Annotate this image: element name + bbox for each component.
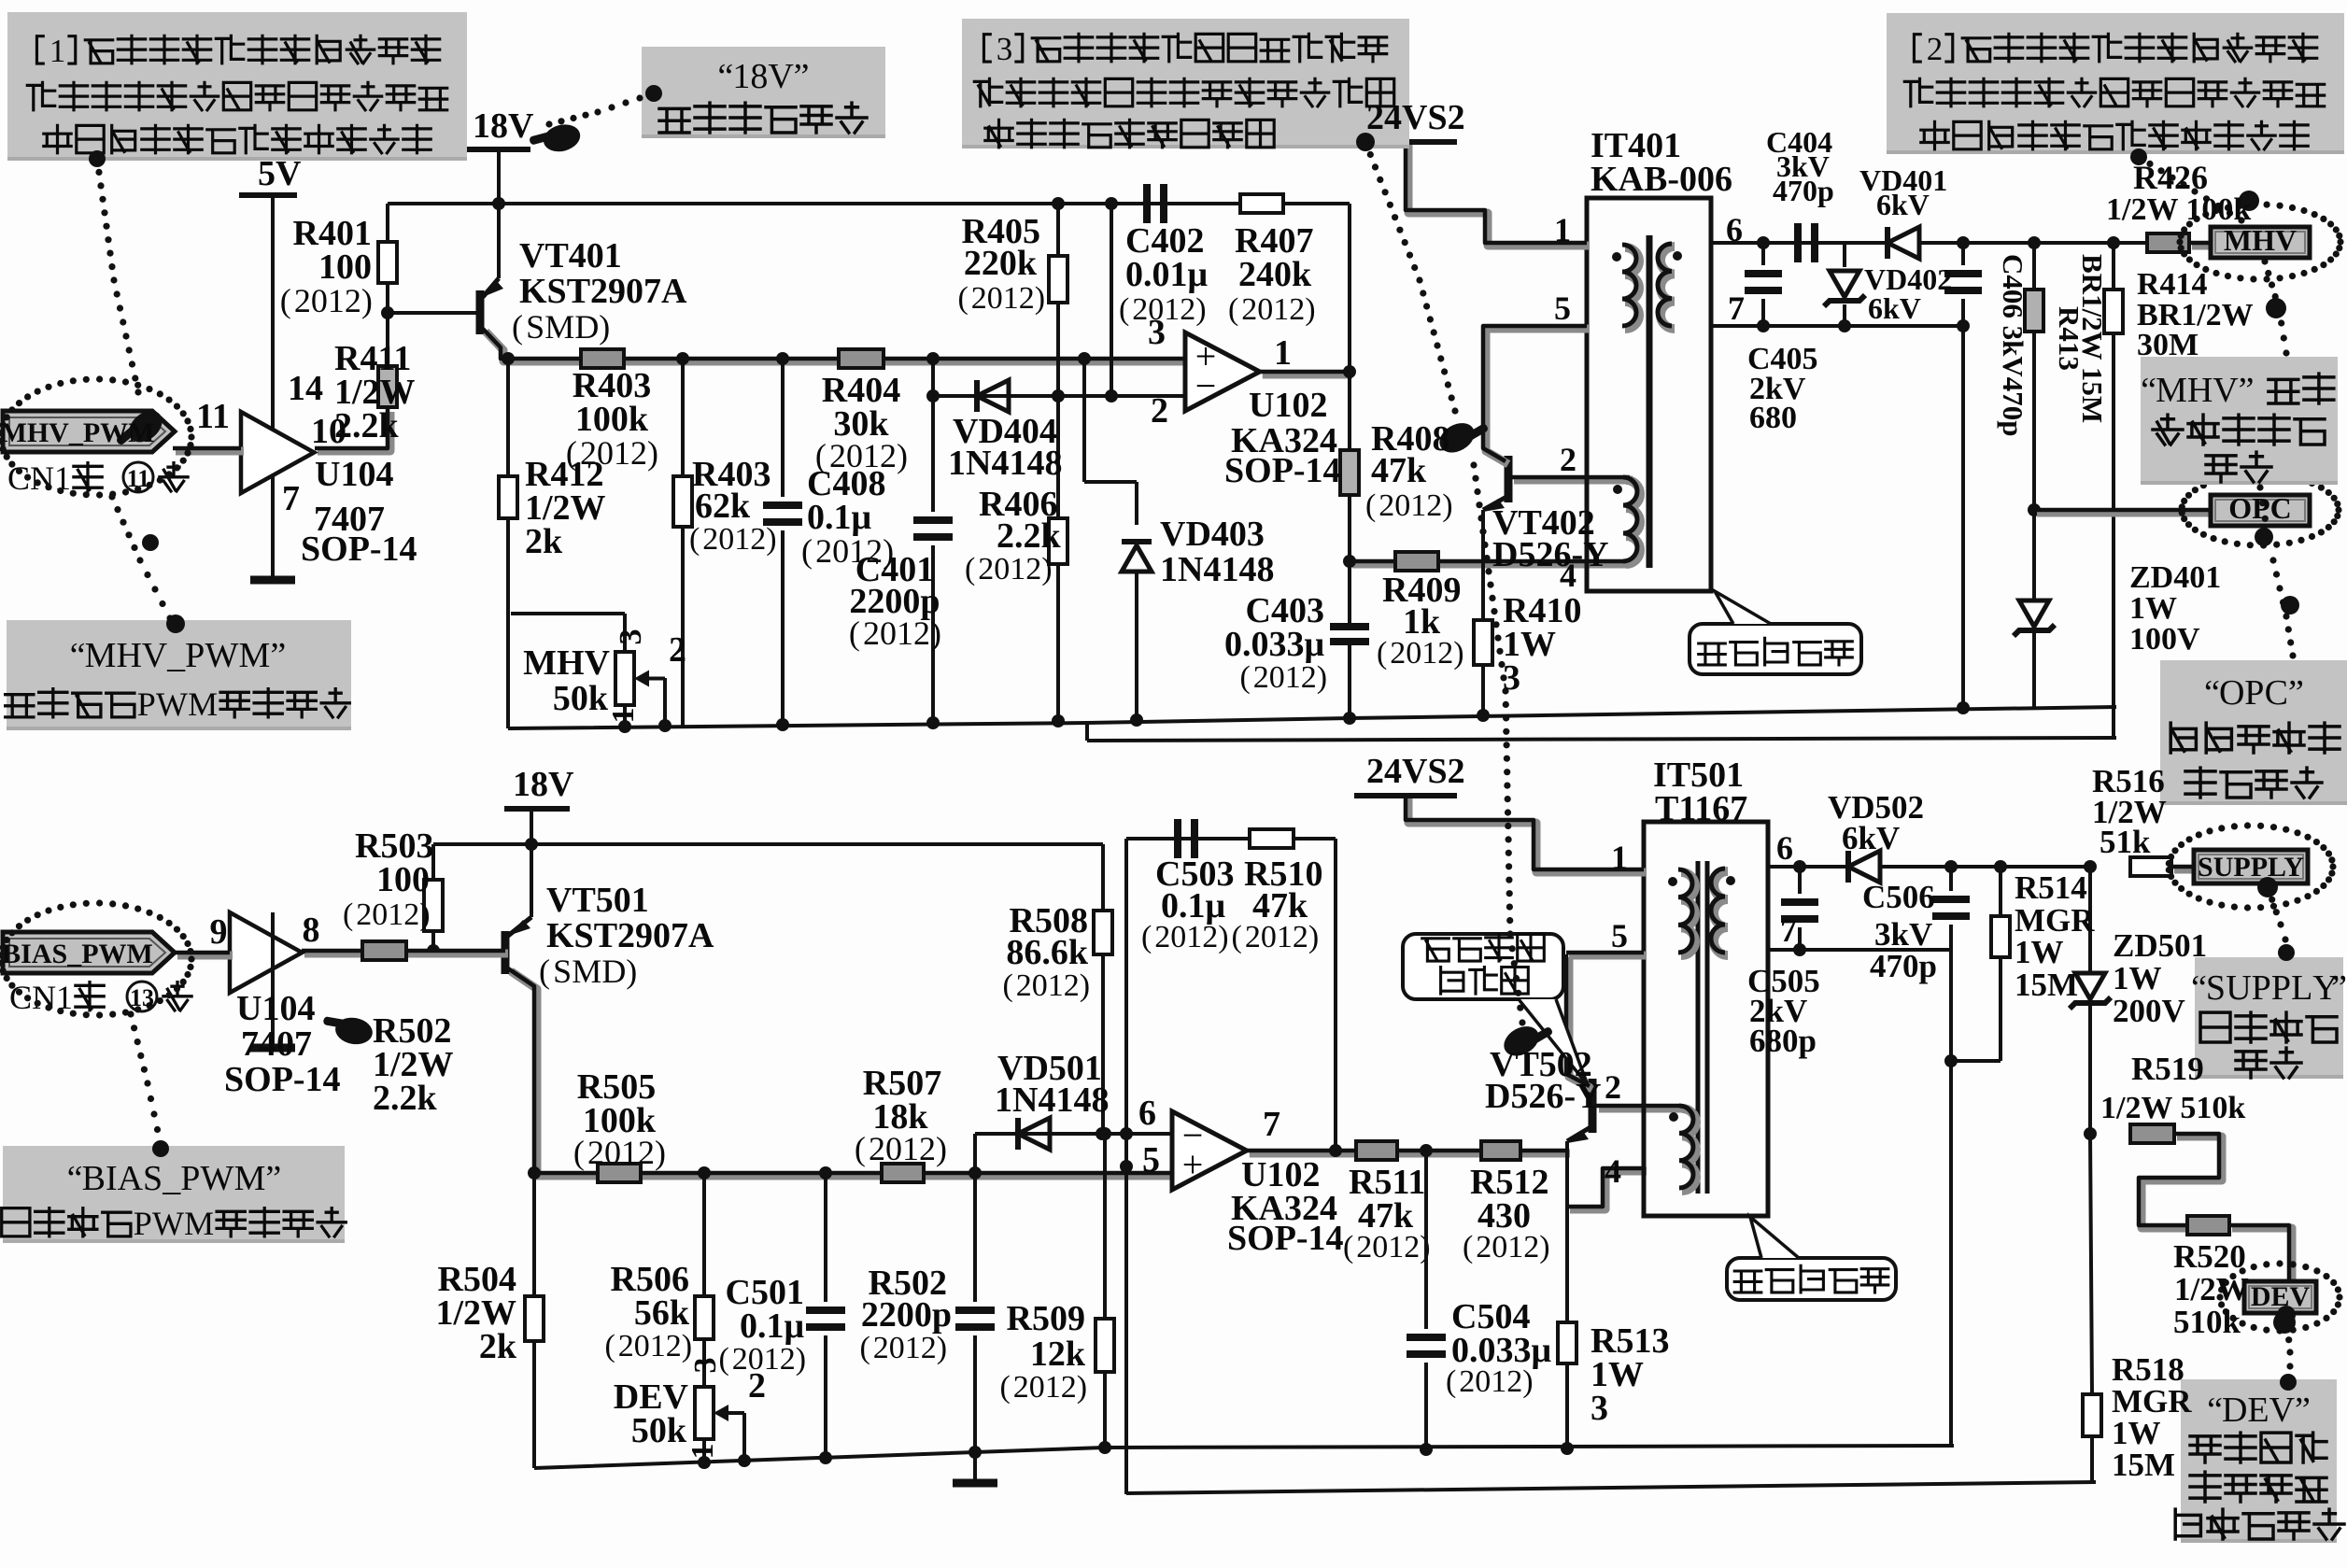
svg-text:“: “ xyxy=(2207,1391,2223,1430)
svg-text:13: 13 xyxy=(130,984,154,1011)
svg-text:): ) xyxy=(599,308,610,346)
svg-text:(: ( xyxy=(1002,968,1012,1003)
svg-text:(: ( xyxy=(855,1130,866,1167)
svg-text:1: 1 xyxy=(388,897,403,932)
svg-text:0.033μ: 0.033μ xyxy=(1224,625,1325,664)
svg-text:2: 2 xyxy=(1025,552,1041,586)
svg-text:1: 1 xyxy=(686,1444,720,1460)
svg-text:(: ( xyxy=(1141,920,1152,954)
svg-text:56k: 56k xyxy=(634,1293,690,1333)
svg-text:3: 3 xyxy=(614,629,648,645)
svg-text:): ) xyxy=(1317,660,1327,695)
svg-text:2.2k: 2.2k xyxy=(997,516,1062,556)
svg-text:2: 2 xyxy=(748,1366,766,1406)
svg-text:MHV_PWM: MHV_PWM xyxy=(1,417,155,448)
svg-text:(: ( xyxy=(965,552,975,586)
svg-text:1/2W 100k: 1/2W 100k xyxy=(2106,192,2251,227)
svg-text:8: 8 xyxy=(303,911,320,950)
svg-text:8: 8 xyxy=(750,57,768,96)
svg-text:P: P xyxy=(2244,673,2264,713)
svg-text:U104: U104 xyxy=(236,989,315,1028)
svg-text:(: ( xyxy=(1239,660,1250,695)
svg-text:P: P xyxy=(2271,968,2291,1008)
svg-text:VD403: VD403 xyxy=(1160,515,1265,554)
svg-text:18V: 18V xyxy=(473,106,534,146)
svg-text:(: ( xyxy=(1463,1230,1473,1264)
svg-text:1/2W 510k: 1/2W 510k xyxy=(2100,1091,2245,1125)
svg-text:680: 680 xyxy=(1749,401,1797,435)
svg-text:2: 2 xyxy=(1061,1370,1077,1405)
svg-text:2: 2 xyxy=(971,281,987,316)
svg-text:M: M xyxy=(239,636,271,675)
svg-text:6kV: 6kV xyxy=(1842,820,1900,856)
svg-text:(: ( xyxy=(1377,636,1387,671)
svg-text:0: 0 xyxy=(832,532,849,570)
svg-text:2: 2 xyxy=(1132,292,1148,327)
svg-text:D526-Y: D526-Y xyxy=(1492,535,1609,574)
svg-text:3: 3 xyxy=(997,31,1013,67)
svg-text:24VS2: 24VS2 xyxy=(1366,98,1465,137)
svg-text:“: “ xyxy=(2204,673,2220,713)
svg-text:A: A xyxy=(118,1159,144,1198)
svg-text:7: 7 xyxy=(282,479,300,518)
svg-text:M: M xyxy=(188,685,218,723)
svg-text:0: 0 xyxy=(1029,1370,1045,1405)
svg-text:(: ( xyxy=(604,1329,615,1363)
svg-text:V: V xyxy=(2213,371,2239,410)
svg-text:47k: 47k xyxy=(1371,451,1427,490)
svg-text:SOP-14: SOP-14 xyxy=(1227,1219,1344,1258)
svg-text:1: 1 xyxy=(1611,839,1628,876)
svg-text:P: P xyxy=(134,1205,152,1242)
svg-text:): ) xyxy=(1195,292,1206,327)
svg-text:1: 1 xyxy=(1010,552,1025,586)
svg-text:): ) xyxy=(655,1134,666,1171)
svg-text:N: N xyxy=(30,459,54,497)
svg-text:47k: 47k xyxy=(1252,886,1308,925)
svg-text:M: M xyxy=(85,636,117,675)
svg-text:18k: 18k xyxy=(872,1097,928,1137)
svg-text:11: 11 xyxy=(196,397,230,436)
svg-text:2: 2 xyxy=(702,522,718,557)
svg-text:V: V xyxy=(768,57,794,96)
svg-text:N: N xyxy=(32,979,56,1016)
svg-text:P: P xyxy=(180,1159,200,1198)
svg-text:): ) xyxy=(1308,920,1319,954)
svg-text:(: ( xyxy=(539,953,550,990)
svg-text:1: 1 xyxy=(1045,1370,1061,1405)
svg-text:M: M xyxy=(572,953,601,990)
svg-text:(: ( xyxy=(1343,1230,1353,1264)
svg-text:I: I xyxy=(106,1159,118,1198)
svg-text:1: 1 xyxy=(49,33,66,69)
svg-text:): ) xyxy=(1077,1370,1087,1405)
svg-text:2: 2 xyxy=(403,897,419,932)
svg-text:2200p: 2200p xyxy=(849,582,940,621)
svg-text:51k: 51k xyxy=(2100,824,2151,860)
svg-text:0.1μ: 0.1μ xyxy=(1161,886,1226,925)
svg-text:200V: 200V xyxy=(2113,993,2185,1029)
svg-text:): ) xyxy=(647,434,658,472)
svg-text:”: ” xyxy=(2295,1391,2311,1430)
svg-text:1W: 1W xyxy=(2129,591,2177,626)
svg-text:): ) xyxy=(796,1342,806,1377)
svg-text:M: M xyxy=(234,1159,266,1198)
svg-text:): ) xyxy=(1041,552,1052,586)
svg-text:“: “ xyxy=(67,1159,83,1198)
svg-text:(: ( xyxy=(343,897,353,932)
svg-text:86.6k: 86.6k xyxy=(1006,933,1089,972)
svg-text:6: 6 xyxy=(1138,1094,1156,1133)
svg-text:1: 1 xyxy=(614,434,630,472)
svg-text:2: 2 xyxy=(356,897,372,932)
svg-text:W: W xyxy=(152,1205,184,1242)
svg-text:H: H xyxy=(2187,371,2213,410)
svg-text:S: S xyxy=(526,308,544,346)
svg-text:”: ” xyxy=(2288,673,2304,713)
svg-text:1k: 1k xyxy=(1403,602,1441,642)
svg-text:5V: 5V xyxy=(258,154,302,193)
svg-text:“: “ xyxy=(2141,371,2156,410)
svg-text:”: ” xyxy=(270,636,286,675)
svg-text:U102: U102 xyxy=(1249,386,1327,425)
svg-text:2: 2 xyxy=(780,1342,796,1377)
svg-text:”: ” xyxy=(794,57,810,96)
svg-text:(: ( xyxy=(1365,488,1376,523)
svg-text:5: 5 xyxy=(1142,1140,1160,1180)
svg-text:0: 0 xyxy=(987,281,1003,316)
svg-text:2: 2 xyxy=(1253,660,1269,695)
svg-text:0.1μ: 0.1μ xyxy=(740,1307,805,1346)
svg-text:W: W xyxy=(156,685,188,723)
svg-text:1/2W: 1/2W xyxy=(2174,1271,2249,1307)
svg-text:DEV: DEV xyxy=(2251,1281,2311,1312)
svg-text:7: 7 xyxy=(1263,1105,1280,1144)
svg-text:L: L xyxy=(2291,968,2312,1008)
svg-text:24VS2: 24VS2 xyxy=(1366,752,1465,791)
svg-text:D: D xyxy=(574,308,599,346)
svg-text:1: 1 xyxy=(1164,292,1180,327)
svg-text:H: H xyxy=(116,636,141,675)
svg-text:1: 1 xyxy=(650,1329,666,1363)
svg-text:510k: 510k xyxy=(2173,1304,2241,1340)
svg-text:5: 5 xyxy=(1611,917,1628,954)
svg-text:O: O xyxy=(2219,673,2244,713)
svg-text:(: ( xyxy=(957,281,968,316)
svg-text:): ) xyxy=(1442,488,1452,523)
svg-text:2.2k: 2.2k xyxy=(334,406,400,445)
svg-text:14: 14 xyxy=(288,369,323,408)
svg-text:(: ( xyxy=(1119,292,1129,327)
svg-text:R520: R520 xyxy=(2173,1238,2246,1275)
svg-text:ZD401: ZD401 xyxy=(2129,560,2221,595)
svg-text:B: B xyxy=(82,1159,106,1198)
svg-text:): ) xyxy=(1035,281,1045,316)
svg-text:(: ( xyxy=(999,1370,1010,1405)
svg-text:): ) xyxy=(361,282,373,319)
svg-text:2: 2 xyxy=(1379,488,1394,523)
svg-text:): ) xyxy=(1539,1230,1549,1264)
svg-text:W: W xyxy=(205,636,238,675)
svg-text:18V: 18V xyxy=(513,765,574,804)
svg-text:100: 100 xyxy=(376,860,430,899)
svg-text:50k: 50k xyxy=(553,679,609,718)
svg-text:6kV: 6kV xyxy=(1876,188,1930,221)
svg-text:): ) xyxy=(626,953,637,990)
svg-text:6: 6 xyxy=(1776,829,1793,867)
svg-text:M: M xyxy=(184,1205,214,1242)
svg-text:4: 4 xyxy=(1605,1152,1621,1190)
svg-text:2: 2 xyxy=(750,522,766,557)
svg-text:1W: 1W xyxy=(2113,960,2162,996)
svg-text:1: 1 xyxy=(328,282,345,319)
svg-text:KST2907A: KST2907A xyxy=(519,272,687,311)
svg-text:240k: 240k xyxy=(1238,255,1312,294)
svg-text:7: 7 xyxy=(1780,911,1797,949)
svg-text:R414: R414 xyxy=(2137,267,2208,302)
svg-text:S: S xyxy=(553,953,572,990)
svg-text:(: ( xyxy=(859,1331,870,1365)
svg-text:7407: 7407 xyxy=(241,1024,312,1064)
svg-text:1: 1 xyxy=(606,708,641,724)
svg-text:W: W xyxy=(201,1159,234,1198)
svg-text:0.033μ: 0.033μ xyxy=(1451,1331,1552,1370)
svg-text:2k: 2k xyxy=(525,522,563,561)
svg-text:2: 2 xyxy=(873,1331,889,1365)
svg-text:1: 1 xyxy=(1285,660,1301,695)
svg-text:(: ( xyxy=(801,532,813,570)
svg-text:(: ( xyxy=(689,522,700,557)
svg-text:2: 2 xyxy=(1064,968,1080,1003)
svg-text:(: ( xyxy=(280,282,291,319)
svg-text:2200p: 2200p xyxy=(861,1295,952,1335)
svg-text:2: 2 xyxy=(630,434,647,472)
svg-text:”: ” xyxy=(2239,371,2255,410)
svg-text:): ) xyxy=(1453,636,1463,671)
svg-text:62k: 62k xyxy=(695,487,751,526)
svg-text:P: P xyxy=(2252,968,2271,1008)
svg-text:3: 3 xyxy=(688,1358,723,1374)
svg-text:0: 0 xyxy=(994,552,1010,586)
svg-text:2: 2 xyxy=(294,282,311,319)
svg-text:): ) xyxy=(937,1331,947,1365)
svg-text:): ) xyxy=(1305,292,1315,327)
svg-text:47k: 47k xyxy=(1358,1196,1414,1236)
svg-text:ZD501: ZD501 xyxy=(2113,927,2207,964)
svg-text:0: 0 xyxy=(718,522,734,557)
svg-text:): ) xyxy=(897,437,908,474)
svg-text:1: 1 xyxy=(1048,968,1064,1003)
svg-text:_: _ xyxy=(162,1159,181,1198)
svg-text:0: 0 xyxy=(634,1329,650,1363)
svg-text:4: 4 xyxy=(1560,557,1576,594)
svg-text:2: 2 xyxy=(669,630,686,670)
svg-text:2: 2 xyxy=(1151,391,1168,431)
svg-text:OPC: OPC xyxy=(2228,491,2292,525)
svg-text:1: 1 xyxy=(732,57,750,96)
svg-text:7: 7 xyxy=(1728,290,1745,327)
svg-text:30M: 30M xyxy=(2137,328,2199,362)
svg-text:(: ( xyxy=(512,308,523,346)
svg-text:3: 3 xyxy=(1148,313,1166,352)
svg-text:): ) xyxy=(419,897,430,932)
svg-text:0.1μ: 0.1μ xyxy=(807,498,872,537)
svg-text:0: 0 xyxy=(372,897,388,932)
svg-text:R514: R514 xyxy=(2015,869,2087,906)
svg-text:1W: 1W xyxy=(2015,934,2064,970)
svg-text:0: 0 xyxy=(889,1331,905,1365)
svg-text:VT501: VT501 xyxy=(546,881,649,920)
svg-text:): ) xyxy=(766,522,776,557)
svg-text:T1167: T1167 xyxy=(1655,789,1747,828)
svg-text:100V: 100V xyxy=(2129,622,2200,657)
svg-text:SOP-14: SOP-14 xyxy=(1224,451,1341,490)
svg-text:2: 2 xyxy=(1016,968,1032,1003)
svg-text:12k: 12k xyxy=(1030,1335,1086,1374)
svg-text:1N4148: 1N4148 xyxy=(1160,550,1274,589)
svg-text:5: 5 xyxy=(1554,290,1571,327)
svg-text:D526-Y: D526-Y xyxy=(1485,1077,1602,1116)
svg-text:C: C xyxy=(2265,673,2288,713)
svg-text:1: 1 xyxy=(1274,333,1292,373)
svg-text:MHV: MHV xyxy=(2224,223,2297,257)
svg-text:U: U xyxy=(2226,968,2251,1008)
svg-text:0.01μ: 0.01μ xyxy=(1125,255,1209,294)
svg-text:2: 2 xyxy=(1180,292,1195,327)
svg-text:2: 2 xyxy=(618,1329,634,1363)
svg-text:100k: 100k xyxy=(583,1101,657,1140)
svg-text:15M: 15M xyxy=(2015,967,2078,1003)
svg-text:1N4148: 1N4148 xyxy=(948,444,1062,483)
svg-text:100: 100 xyxy=(318,247,372,287)
svg-text:2: 2 xyxy=(1289,292,1305,327)
svg-text:(: ( xyxy=(1228,292,1238,327)
svg-text:): ) xyxy=(936,1130,947,1167)
svg-text:470p: 470p xyxy=(1773,174,1834,207)
svg-text:6kV: 6kV xyxy=(1868,291,1921,325)
svg-text:R519: R519 xyxy=(2131,1051,2204,1087)
svg-text:2: 2 xyxy=(1426,488,1442,523)
svg-text:”: ” xyxy=(265,1159,281,1198)
svg-text:1: 1 xyxy=(1003,281,1019,316)
svg-text:M: M xyxy=(2156,371,2187,410)
svg-text:6: 6 xyxy=(1726,211,1743,248)
svg-text:SOP-14: SOP-14 xyxy=(301,530,417,569)
svg-text:2: 2 xyxy=(1013,1370,1029,1405)
svg-text:2k: 2k xyxy=(479,1327,517,1366)
svg-text:“: “ xyxy=(70,636,86,675)
svg-text:2: 2 xyxy=(1605,1068,1621,1106)
svg-text:15M: 15M xyxy=(2112,1447,2175,1483)
svg-text:1: 1 xyxy=(905,1331,921,1365)
svg-text:R426: R426 xyxy=(2133,159,2208,196)
svg-text:BIAS_PWM: BIAS_PWM xyxy=(2,939,153,969)
svg-text:1: 1 xyxy=(734,522,750,557)
svg-text:2: 2 xyxy=(978,552,994,586)
svg-text:U104: U104 xyxy=(315,455,393,494)
svg-text:2: 2 xyxy=(345,282,361,319)
svg-text:2: 2 xyxy=(921,1331,937,1365)
svg-text:“: “ xyxy=(2191,968,2207,1008)
svg-text:+: + xyxy=(1182,1143,1204,1185)
svg-text:1: 1 xyxy=(1273,292,1289,327)
svg-text:_: _ xyxy=(166,636,186,675)
svg-text:2.2k: 2.2k xyxy=(373,1079,438,1118)
svg-text:C406 3kV470p: C406 3kV470p xyxy=(1997,254,2029,437)
svg-text:50k: 50k xyxy=(631,1411,687,1450)
svg-text:430: 430 xyxy=(1477,1196,1531,1236)
svg-text:2: 2 xyxy=(732,1342,748,1377)
svg-text:11: 11 xyxy=(127,465,150,492)
svg-text:V: V xyxy=(2269,1391,2296,1430)
svg-text:1: 1 xyxy=(764,1342,780,1377)
svg-text:0: 0 xyxy=(1257,292,1273,327)
svg-text:3: 3 xyxy=(1503,658,1520,698)
svg-text:680p: 680p xyxy=(1749,1023,1817,1059)
svg-text:E: E xyxy=(2247,1391,2269,1430)
svg-text:2: 2 xyxy=(1927,31,1944,67)
svg-text:V: V xyxy=(142,636,168,675)
svg-text:2: 2 xyxy=(666,1329,682,1363)
svg-text:P: P xyxy=(185,636,205,675)
svg-text:M: M xyxy=(544,308,574,346)
svg-text:S: S xyxy=(143,1159,163,1198)
svg-text:VT401: VT401 xyxy=(519,236,622,275)
svg-text:C506: C506 xyxy=(1862,879,1935,915)
svg-text:30k: 30k xyxy=(833,404,889,444)
svg-text:0: 0 xyxy=(1394,488,1410,523)
svg-text:0: 0 xyxy=(1269,660,1285,695)
svg-text:−: − xyxy=(1195,364,1217,406)
svg-text:1N4148: 1N4148 xyxy=(995,1081,1109,1120)
svg-text:P: P xyxy=(137,685,156,723)
svg-text:(: ( xyxy=(1232,920,1242,954)
svg-text:2: 2 xyxy=(1241,292,1257,327)
svg-text:470p: 470p xyxy=(1870,948,1937,984)
svg-text:0: 0 xyxy=(311,282,328,319)
svg-text:D: D xyxy=(601,953,626,990)
svg-text:): ) xyxy=(1080,968,1090,1003)
svg-text:2: 2 xyxy=(815,532,832,570)
svg-text:100k: 100k xyxy=(575,400,649,439)
svg-text:9: 9 xyxy=(210,912,228,952)
svg-text:MHV: MHV xyxy=(523,643,610,683)
svg-text:SUPPLY: SUPPLY xyxy=(2198,852,2304,883)
svg-text:R509: R509 xyxy=(1007,1299,1085,1338)
svg-text:1: 1 xyxy=(1410,488,1426,523)
svg-text:1: 1 xyxy=(1554,211,1571,248)
svg-text:D: D xyxy=(2222,1391,2247,1430)
svg-text:2: 2 xyxy=(1560,441,1576,478)
svg-text:0: 0 xyxy=(1032,968,1048,1003)
svg-text:”: ” xyxy=(2331,968,2347,1008)
svg-text:BR1/2W 15M: BR1/2W 15M xyxy=(2076,254,2109,423)
svg-text:KAB-006: KAB-006 xyxy=(1591,160,1732,199)
svg-text:SOP-14: SOP-14 xyxy=(224,1060,341,1099)
svg-text:“: “ xyxy=(717,57,733,96)
svg-text:KST2907A: KST2907A xyxy=(546,916,714,955)
svg-text:S: S xyxy=(2206,968,2226,1008)
svg-text:2: 2 xyxy=(1019,281,1035,316)
svg-text:2: 2 xyxy=(1301,660,1317,695)
svg-text:220k: 220k xyxy=(964,244,1038,283)
svg-text:3: 3 xyxy=(1591,1389,1608,1428)
